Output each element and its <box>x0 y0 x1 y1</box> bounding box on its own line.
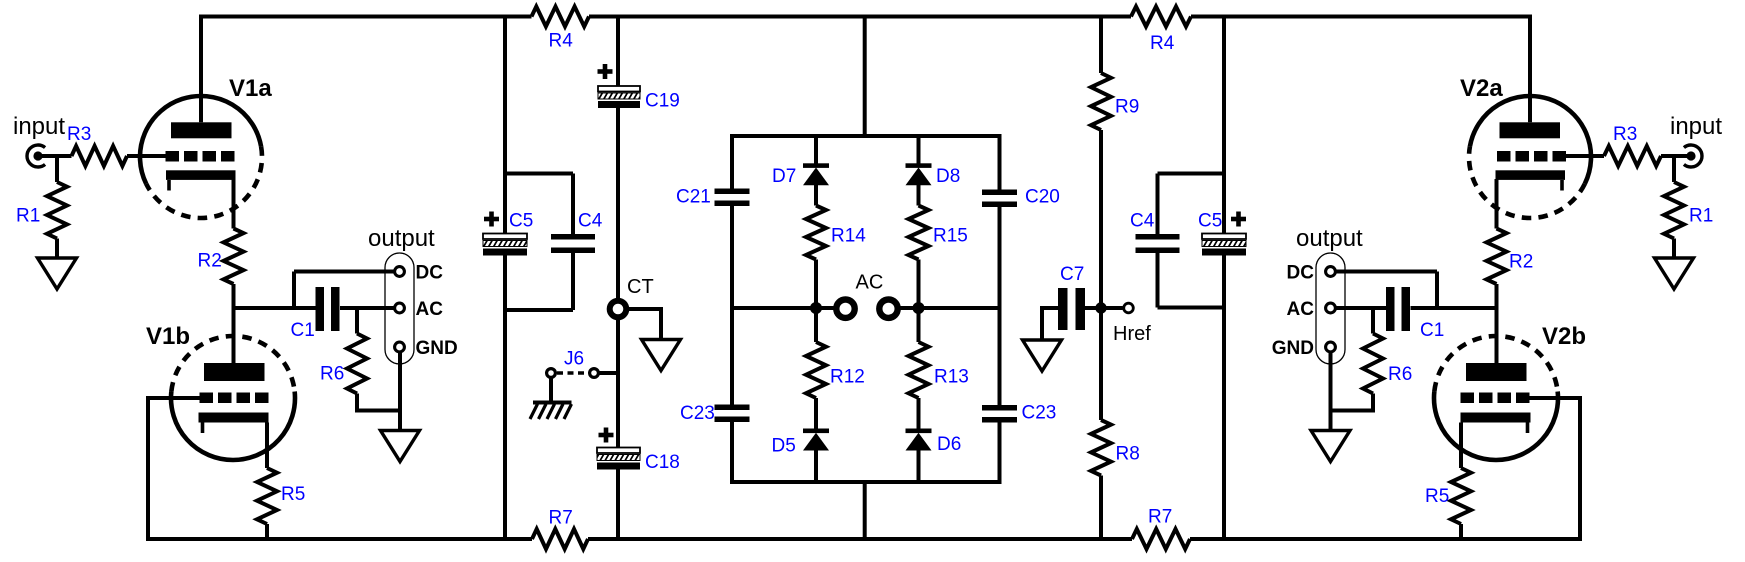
connector input jack right <box>1684 145 1702 167</box>
svg-text:R12: R12 <box>830 367 865 388</box>
tube V1b circle solid arc <box>171 392 295 460</box>
svg-text:J6: J6 <box>564 349 584 370</box>
label D6 <box>937 434 961 455</box>
label input (left) <box>13 113 65 140</box>
resistor R5 (right) <box>1451 468 1471 524</box>
ground (left output) <box>381 431 420 462</box>
svg-text:D6: D6 <box>937 434 961 455</box>
wire bridge mid wire left <box>732 306 834 310</box>
label R2 (left) <box>198 251 222 272</box>
label C7 <box>1060 264 1084 285</box>
wire V1a cathode to R2 <box>232 179 236 229</box>
terminal DC (right) <box>1326 267 1336 277</box>
wire J6 to chassis ground <box>549 378 553 403</box>
wire top B+ rail middle segment <box>589 15 1131 19</box>
wire left bracket right lower <box>571 253 575 310</box>
svg-text:C4: C4 <box>578 211 603 232</box>
svg-text:D5: D5 <box>772 436 796 457</box>
label R15 <box>933 226 968 247</box>
label R5 (left) <box>281 484 305 505</box>
wire bridge mid wire right <box>901 306 1000 310</box>
wire bridge right edge middle <box>998 207 1002 406</box>
wire V2a plate lead <box>1528 15 1532 123</box>
tube V2b circle dashed arc <box>1434 336 1557 392</box>
svg-text:output: output <box>1296 225 1363 252</box>
capacitor C1 (right) <box>1386 287 1410 331</box>
label C1 (left) <box>291 320 315 341</box>
label R6 (right) <box>1388 364 1412 385</box>
wire top B+ rail right segment <box>1191 15 1532 19</box>
diode D7 <box>803 163 829 185</box>
capacitor C1 (left) <box>316 287 340 331</box>
label R1 (left) <box>16 206 40 227</box>
svg-text:V1a: V1a <box>229 75 272 102</box>
capacitor C23 (left) <box>715 405 750 423</box>
wire R15 to node <box>917 260 921 309</box>
label C5 (right) <box>1198 211 1222 232</box>
label R4 (left) <box>549 31 574 52</box>
ground (below R1 left) <box>38 258 77 289</box>
terminal Href <box>1124 303 1134 313</box>
svg-text:input: input <box>1670 113 1722 140</box>
tube V1a circle dashed arc <box>146 146 262 218</box>
wire bridge to bottom rail <box>863 480 867 541</box>
wire R9 to R8 <box>1099 130 1103 420</box>
svg-text:R14: R14 <box>831 226 866 247</box>
wire right bracket left upper <box>1156 174 1160 235</box>
wire R14 to node <box>814 260 818 309</box>
label V1b <box>146 323 190 350</box>
svg-text:C4: C4 <box>1130 211 1155 232</box>
wire R8 to bottom rail <box>1099 476 1103 542</box>
wire C1 to node right <box>1411 306 1498 310</box>
wire B+ left dropper upper <box>503 17 507 235</box>
capacitor C20 <box>982 190 1017 208</box>
svg-text:CT: CT <box>627 276 654 298</box>
svg-text:R6: R6 <box>320 364 344 385</box>
resistor R7 (right) <box>1132 529 1190 549</box>
resistor R2 (left) <box>224 229 244 285</box>
plus sign C5 (right) <box>1231 212 1246 227</box>
svg-text:V2b: V2b <box>1542 323 1586 350</box>
terminal GND (right) <box>1326 342 1336 352</box>
wire R2 to node / V1b plate <box>232 284 236 363</box>
svg-text:R8: R8 <box>1116 444 1140 465</box>
capacitor C7 <box>1058 288 1085 330</box>
wire GND terminal down <box>398 352 402 431</box>
capacitor C5 (right electrolytic) <box>1202 234 1246 256</box>
label C23 (right) <box>1022 403 1057 424</box>
wire left bracket top <box>505 172 573 176</box>
label D7 <box>772 166 796 187</box>
node dot Href <box>1095 302 1106 313</box>
wire node to R13 <box>917 308 921 342</box>
svg-text:R15: R15 <box>933 226 968 247</box>
svg-text:Href: Href <box>1113 323 1151 345</box>
wire AC coupling left (node to C1) <box>234 306 316 310</box>
svg-text:R7: R7 <box>1148 507 1172 528</box>
capacitor C23 (right) <box>982 405 1017 423</box>
label C21 <box>676 187 711 208</box>
ground (CT) <box>642 340 681 371</box>
label D5 <box>772 436 796 457</box>
wire R6 bottom to ground wire <box>357 394 400 411</box>
resistor R6 (left) <box>347 334 367 394</box>
wire V2b grid to bottom rail <box>1578 396 1582 541</box>
wire V1a plate lead <box>199 15 203 123</box>
tube V1b cathode left leg <box>201 423 205 434</box>
capacitor C21 <box>715 189 750 207</box>
svg-text:DC: DC <box>416 263 444 284</box>
wire DC tap horizontal right <box>1336 270 1437 274</box>
wire bridge left edge middle <box>730 206 734 406</box>
svg-text:R7: R7 <box>549 508 573 529</box>
tube V1a cathode <box>166 170 236 180</box>
label V2b <box>1542 323 1586 350</box>
wire input to R3 <box>38 154 72 158</box>
svg-text:R9: R9 <box>1115 97 1139 118</box>
wire DC tap horizontal <box>294 270 394 274</box>
tube V1b circle dashed arc <box>171 336 294 392</box>
tube V2a plate <box>1500 122 1561 138</box>
wire C18 to bottom rail <box>616 470 620 542</box>
wire R6 bottom to ground right <box>1331 394 1374 411</box>
diode D8 <box>906 163 932 185</box>
label C4 (right) <box>1130 211 1155 232</box>
wire bridge left edge lower <box>730 422 734 483</box>
terminal AC (left) <box>395 303 405 313</box>
diode D5 <box>803 429 829 451</box>
wire R12 to D5 <box>814 398 818 429</box>
svg-text:C5: C5 <box>1198 211 1222 232</box>
tube V1b plate <box>204 363 265 381</box>
tube V1a circle solid arc <box>140 96 261 184</box>
wire bridge top to D7 <box>814 136 818 164</box>
tube V2b circle solid arc <box>1434 392 1558 460</box>
wire input junction to R1 <box>55 154 59 182</box>
svg-text:GND: GND <box>1272 338 1314 359</box>
svg-text:C19: C19 <box>645 91 680 112</box>
wire right bracket top <box>1158 172 1225 176</box>
label AC (bridge terminals) <box>856 272 884 294</box>
connector output oval (right) <box>1316 253 1345 364</box>
wire node to Href terminal <box>1101 306 1123 310</box>
wire B+ left dropper lower <box>503 253 507 541</box>
svg-text:C23: C23 <box>1022 403 1057 424</box>
tube V2b cathode <box>1461 413 1531 423</box>
svg-text:AC: AC <box>1287 299 1315 320</box>
wire top rail to bridge <box>863 17 867 139</box>
wire C7 left lead <box>1042 308 1058 340</box>
label C18 <box>645 452 680 473</box>
tube V2b grid dashes <box>1461 393 1530 404</box>
label DC (right) <box>1287 263 1315 284</box>
svg-text:V1b: V1b <box>146 323 190 350</box>
svg-text:R5: R5 <box>1425 486 1449 507</box>
capacitor C19 (electrolytic) <box>598 86 640 108</box>
svg-text:R2: R2 <box>198 251 222 272</box>
terminal AC right ring <box>879 300 897 318</box>
capacitor C18 (electrolytic) <box>597 448 640 470</box>
resistor R9 <box>1091 73 1111 130</box>
svg-text:R4: R4 <box>1150 33 1175 54</box>
label output (right) <box>1296 225 1363 252</box>
wire CT to ground <box>628 309 661 340</box>
wire bridge bottom edge <box>730 480 1002 484</box>
tube V1a cathode left leg <box>167 180 171 191</box>
svg-text:C5: C5 <box>509 211 533 232</box>
resistor R2 (right) <box>1487 229 1507 285</box>
svg-text:R4: R4 <box>549 31 574 52</box>
label R3 (left) <box>67 124 91 145</box>
wire C7 right lead <box>1085 306 1101 310</box>
wire right bracket left lower <box>1156 253 1160 308</box>
plus sign C19 <box>598 64 613 79</box>
wire R3 to input right <box>1661 154 1691 158</box>
diode D6 <box>906 429 932 451</box>
label DC (left) <box>416 263 444 284</box>
resistor R1 (right) <box>1664 182 1684 239</box>
resistor R3 (left) <box>72 146 128 166</box>
terminal DC (left) <box>395 267 405 277</box>
wire B+ right dropper lower <box>1222 253 1226 541</box>
svg-text:DC: DC <box>1287 263 1315 284</box>
label Href <box>1113 323 1151 345</box>
label R4 (right) <box>1150 33 1175 54</box>
wire left bracket right upper <box>571 174 575 235</box>
wire right bracket bottom <box>1158 306 1225 310</box>
node CT terminal <box>610 301 627 318</box>
label J6 <box>564 349 584 370</box>
wire R5 to bottom rail <box>265 524 269 539</box>
label AC terminal (left) <box>416 299 444 320</box>
tube V2a cathode <box>1496 170 1566 180</box>
label C19 <box>645 91 680 112</box>
resistor R8 <box>1091 420 1111 476</box>
svg-text:R13: R13 <box>934 367 969 388</box>
svg-text:D8: D8 <box>936 166 960 187</box>
ground (C7) <box>1023 340 1062 371</box>
svg-text:AC: AC <box>416 299 444 320</box>
resistor R4 (right) <box>1131 7 1191 27</box>
label R6 (left) <box>320 364 344 385</box>
wire C19 to C18 <box>616 108 620 449</box>
label input (right) <box>1670 113 1722 140</box>
connector output oval (left) <box>385 253 414 364</box>
capacitor C5 (left electrolytic) <box>483 234 527 256</box>
label CT <box>627 276 654 298</box>
wire AC wire to R6 <box>355 308 359 334</box>
svg-text:C23: C23 <box>680 403 715 424</box>
wire R2 to node / V2b plate <box>1495 284 1499 363</box>
label V1a <box>229 75 272 102</box>
wire V1b grid to bottom rail <box>146 396 150 541</box>
wire node to R12 <box>814 308 818 342</box>
tube V2a circle solid arc <box>1470 96 1591 184</box>
svg-text:R2: R2 <box>1509 252 1533 273</box>
resistor R1 (left) <box>47 182 67 239</box>
wire input junction to R1 right <box>1672 154 1676 182</box>
label C5 (left) <box>509 211 533 232</box>
node dot right AC <box>913 302 925 314</box>
wire J6 dashed link <box>557 371 588 374</box>
wire bridge top to D8 <box>917 136 921 164</box>
resistor R6 (right) <box>1363 334 1383 394</box>
wire J6 to column <box>599 371 618 375</box>
tube V2a cathode right leg <box>1560 180 1564 191</box>
label R7 (right) <box>1148 507 1172 528</box>
tube V2a grid dashes <box>1497 151 1566 162</box>
ground (right output) <box>1311 431 1350 462</box>
jumper J6 left terminal <box>547 369 556 378</box>
label R13 <box>934 367 969 388</box>
svg-text:input: input <box>13 113 65 140</box>
svg-text:V2a: V2a <box>1460 75 1503 102</box>
wire R5 to bottom rail right <box>1459 524 1463 539</box>
plus sign C5 (left) <box>484 212 499 227</box>
svg-text:R3: R3 <box>1613 124 1637 145</box>
wire AC wire to R6 right <box>1371 308 1375 334</box>
resistor R4 (left) <box>532 7 590 27</box>
wire V2a grid lead <box>1566 154 1604 158</box>
wire R13 to D6 <box>917 398 921 429</box>
chassis ground (J6) <box>530 403 572 420</box>
svg-text:C7: C7 <box>1060 264 1084 285</box>
label D8 <box>936 166 960 187</box>
svg-text:R6: R6 <box>1388 364 1412 385</box>
svg-text:output: output <box>368 225 435 252</box>
wire bridge left edge upper <box>730 136 734 189</box>
resistor R13 <box>909 342 929 398</box>
plus sign C18 <box>599 428 614 443</box>
tube V1b grid dashes <box>200 393 269 404</box>
capacitor C4 (right) <box>1136 234 1180 253</box>
label R1 (right) <box>1689 206 1713 227</box>
capacitor C4 (left) <box>551 234 595 253</box>
wire R1 to ground <box>55 239 59 259</box>
wire bridge right edge upper <box>998 136 1002 190</box>
svg-text:R5: R5 <box>281 484 305 505</box>
label C4 (left) <box>578 211 603 232</box>
label V2a <box>1460 75 1503 102</box>
ground (below R1 right) <box>1655 258 1694 289</box>
label AC terminal (right) <box>1287 299 1315 320</box>
tube V1b cathode <box>199 413 269 423</box>
jumper J6 right terminal <box>590 369 599 378</box>
wire DC tap vertical <box>292 272 296 309</box>
wire C1 to AC terminal <box>340 306 394 310</box>
label R7 (left) <box>549 508 573 529</box>
resistor R14 <box>806 206 826 260</box>
svg-text:AC: AC <box>856 272 884 294</box>
label R8 <box>1116 444 1140 465</box>
wire D5 to bridge bottom <box>814 451 818 483</box>
svg-text:C1: C1 <box>291 320 315 341</box>
wire V2b grid lead <box>1529 396 1580 400</box>
tube V2b cathode right leg <box>1526 423 1530 434</box>
wire left bracket bottom <box>505 308 573 312</box>
wire AC terminal to C1 right <box>1336 306 1386 310</box>
connector input jack left <box>27 145 45 167</box>
label C1 (right) <box>1420 320 1444 341</box>
tube V2b plate <box>1466 363 1527 381</box>
svg-text:R1: R1 <box>16 206 40 227</box>
svg-text:C21: C21 <box>676 187 711 208</box>
wire V1b cathode to R5 <box>265 423 269 469</box>
label R9 <box>1115 97 1139 118</box>
label R14 <box>831 226 866 247</box>
wire top B+ rail left segment <box>199 15 532 19</box>
terminal GND (left) <box>395 342 405 352</box>
wire R1 to ground right <box>1672 239 1676 259</box>
wire bottom rail right segment <box>1190 537 1580 541</box>
wire R3 to V1a grid <box>127 154 166 158</box>
resistor R7 (left) <box>532 529 588 549</box>
svg-text:GND: GND <box>416 338 458 359</box>
terminal AC (right) <box>1326 303 1336 313</box>
label R3 (right) <box>1613 124 1637 145</box>
tube V1a grid dashes <box>166 151 235 162</box>
wire V1b grid lead <box>148 396 200 400</box>
tube V1a plate <box>171 122 232 138</box>
wire GND terminal down right <box>1329 352 1333 431</box>
wire bottom rail middle segment <box>588 537 1132 541</box>
wire V2b cathode to R5 <box>1459 423 1463 469</box>
tube V2a circle dashed arc <box>1469 146 1585 218</box>
resistor R15 <box>909 206 929 260</box>
resistor R5 (left) <box>257 468 277 524</box>
wire top rail to C19 <box>616 17 620 88</box>
resistor R3 (right) <box>1604 146 1661 166</box>
label R2 (right) <box>1509 252 1533 273</box>
svg-text:C20: C20 <box>1025 187 1060 208</box>
wire V2a cathode to R2 <box>1495 179 1499 229</box>
label GND (right) <box>1272 338 1314 359</box>
svg-text:C1: C1 <box>1420 320 1444 341</box>
wire bridge right edge lower <box>998 422 1002 482</box>
label R12 <box>830 367 865 388</box>
wire D8 to R15 <box>917 185 921 206</box>
wire bridge top edge <box>730 134 1002 138</box>
label R5 (right) <box>1425 486 1449 507</box>
wire bottom rail left segment <box>148 537 532 541</box>
svg-text:R1: R1 <box>1689 206 1713 227</box>
label GND (left) <box>416 338 458 359</box>
label output (left) <box>368 225 435 252</box>
wire B+ right dropper upper <box>1222 17 1226 235</box>
terminal AC left ring <box>836 300 854 318</box>
wire D7 to R14 <box>814 185 818 206</box>
label C20 <box>1025 187 1060 208</box>
svg-text:C18: C18 <box>645 452 680 473</box>
svg-text:R3: R3 <box>67 124 91 145</box>
svg-text:D7: D7 <box>772 166 796 187</box>
resistor R12 <box>806 342 826 398</box>
wire DC tap vertical right <box>1435 272 1439 309</box>
label C23 (left) <box>680 403 715 424</box>
wire D6 to bridge bottom <box>917 451 921 483</box>
wire top rail to R9 <box>1099 17 1103 74</box>
node dot left AC <box>810 302 822 314</box>
